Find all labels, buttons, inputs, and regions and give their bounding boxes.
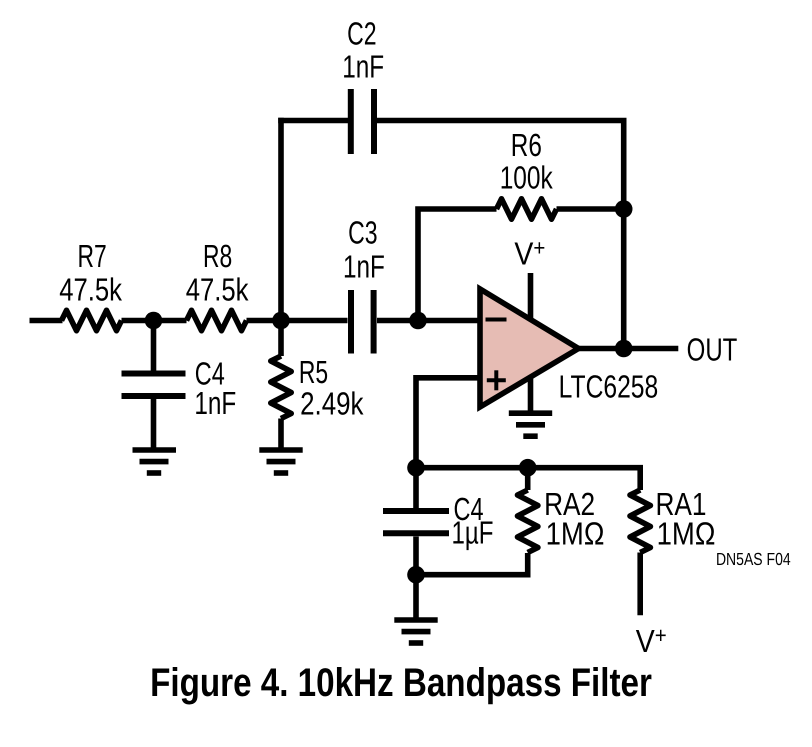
resistor R7 bbox=[62, 310, 122, 330]
ground under R5 bbox=[259, 450, 302, 473]
svg-text:47.5k: 47.5k bbox=[59, 271, 123, 307]
resistor R5 bbox=[271, 321, 291, 448]
wire op-amp noninverting input bbox=[416, 378, 480, 468]
wire node C up to R6 row bbox=[418, 209, 497, 321]
node D junction bbox=[615, 200, 633, 218]
svg-text:2.49k: 2.49k bbox=[300, 385, 364, 421]
wire top rail left to C2 bbox=[278, 118, 348, 124]
wire R8 to node B bbox=[247, 318, 282, 324]
svg-text:1nF: 1nF bbox=[343, 249, 385, 285]
ground under op-amp bbox=[509, 413, 552, 436]
capacitor C2 bbox=[351, 89, 374, 154]
capacitor C4 1nF stem bottom bbox=[151, 399, 157, 448]
ground under C4 1nF bbox=[133, 450, 177, 473]
svg-text:Figure 4. 10kHz Bandpass Filte: Figure 4. 10kHz Bandpass Filter bbox=[150, 661, 652, 705]
wire op-amp output to node E to OUT bbox=[578, 346, 678, 352]
wire node C to op-amp inverting input bbox=[418, 318, 480, 324]
resistor R8 bbox=[187, 310, 247, 330]
svg-text:C2: C2 bbox=[347, 16, 376, 52]
node H junction bbox=[407, 566, 425, 584]
svg-text:1MΩ: 1MΩ bbox=[657, 516, 716, 552]
ground under C4 1uF bbox=[394, 620, 437, 643]
op-amp U1 LTC6258 bbox=[480, 289, 579, 407]
op-amp minus input symbol bbox=[486, 318, 507, 322]
capacitor C4 1uF stem top bbox=[413, 468, 419, 508]
svg-text:V+: V+ bbox=[636, 622, 667, 659]
svg-text:1MΩ: 1MΩ bbox=[546, 516, 605, 552]
wire C2 to top right corner bbox=[377, 121, 624, 210]
svg-text:1nF: 1nF bbox=[194, 385, 236, 421]
node A junction bbox=[145, 312, 163, 330]
wire node A to R8 to node B bbox=[154, 318, 187, 324]
wire bias rail node F to RA1 corner bbox=[416, 468, 640, 490]
resistor RA2 bbox=[518, 468, 538, 553]
wire node D down to node E bbox=[621, 209, 627, 349]
svg-text:R6: R6 bbox=[511, 127, 542, 163]
resistor RA1 bbox=[630, 490, 650, 615]
wire node H to RA2 bottom bbox=[416, 553, 528, 575]
capacitor C3 bbox=[351, 290, 374, 354]
wire node B to C3 left plate bbox=[281, 318, 348, 324]
wire R6 to node D bbox=[557, 206, 624, 212]
svg-text:1nF: 1nF bbox=[342, 48, 384, 84]
node E output junction bbox=[615, 340, 633, 358]
wire C3 right plate to node C bbox=[377, 318, 418, 324]
svg-text:100k: 100k bbox=[500, 159, 554, 195]
svg-text:1µF: 1µF bbox=[451, 515, 493, 551]
svg-text:OUT: OUT bbox=[687, 332, 738, 368]
op-amp V+ power stem bbox=[528, 273, 534, 319]
svg-text:C3: C3 bbox=[348, 215, 377, 251]
svg-text:V+: V+ bbox=[514, 234, 545, 271]
wire R7 to node A bbox=[122, 318, 154, 324]
wire node B up to top rail bbox=[278, 118, 284, 321]
op-amp plus input symbol bbox=[487, 370, 506, 390]
resistor R6 bbox=[497, 199, 557, 219]
svg-text:R7: R7 bbox=[77, 238, 106, 274]
capacitor C4 1uF stem bottom bbox=[413, 537, 419, 575]
capacitor C4 1uF plates bbox=[383, 511, 449, 533]
svg-text:47.5k: 47.5k bbox=[186, 271, 250, 307]
wire node H to ground bbox=[413, 575, 419, 618]
node C junction bbox=[409, 312, 427, 330]
node F junction bbox=[407, 459, 425, 477]
svg-text:DN5AS F04: DN5AS F04 bbox=[716, 549, 791, 569]
svg-text:LTC6258: LTC6258 bbox=[559, 368, 659, 404]
capacitor C4 1nF plates bbox=[122, 374, 186, 397]
node G junction bbox=[519, 459, 537, 477]
svg-text:R8: R8 bbox=[203, 238, 232, 274]
node B junction bbox=[272, 312, 290, 330]
op-amp ground stem bbox=[528, 376, 534, 413]
wire input stub to R7 bbox=[30, 318, 63, 324]
capacitor C4 1nF stem bbox=[151, 321, 157, 371]
